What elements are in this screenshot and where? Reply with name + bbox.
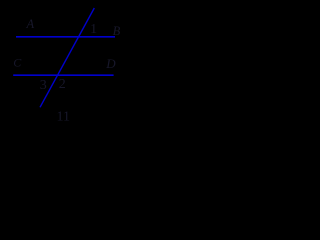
background	[0, 0, 136, 136]
svg-text:2: 2	[59, 77, 66, 92]
svg-text:1: 1	[90, 22, 97, 37]
svg-text:11: 11	[57, 110, 70, 125]
transversal	[40, 8, 94, 107]
svg-text:D: D	[105, 56, 116, 71]
line CD (bottom parallel line)	[13, 74, 113, 76]
line AB (top parallel line)	[16, 36, 115, 38]
svg-text:A: A	[26, 17, 35, 31]
svg-text:B: B	[113, 24, 121, 38]
svg-text:3: 3	[40, 78, 47, 93]
svg-text:C: C	[13, 56, 22, 70]
